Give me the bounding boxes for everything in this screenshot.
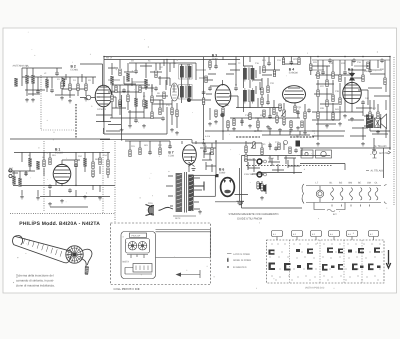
svg-text:ANT FM: ANT FM (379, 152, 388, 155)
svg-text:ECH 81: ECH 81 (98, 108, 107, 111)
svg-text:BM: BM (349, 182, 353, 185)
svg-text:BE: BE (358, 182, 362, 185)
svg-text:B 3: B 3 (312, 233, 315, 236)
svg-text:B 1: B 1 (273, 233, 276, 236)
svg-text:C.A.V.: C.A.V. (268, 157, 275, 160)
svg-text:OM: OM (367, 182, 371, 185)
svg-text:B 5: B 5 (348, 233, 351, 236)
svg-text:A 1 B: A 1 B (205, 135, 211, 138)
svg-text:zione di massima induttanza.: zione di massima induttanza. (16, 284, 55, 288)
svg-text:PICK UP: PICK UP (132, 234, 141, 237)
svg-text:AL TELAIO: AL TELAIO (371, 170, 384, 173)
svg-text:220V: 220V (148, 202, 153, 205)
svg-text:NOTA: NOTA (123, 261, 130, 264)
svg-text:ANT: ANT (9, 167, 14, 170)
svg-text:B 7: B 7 (370, 233, 373, 236)
svg-text:B 4: B 4 (330, 233, 333, 236)
svg-text:EABC80: EABC80 (289, 72, 299, 75)
svg-text:PHILIPS Modd. B4I20A - N4I: PHILIPS Modd. B4I20A - N4I2TA (19, 221, 100, 227)
svg-text:STAZ RD: STAZ RD (244, 173, 254, 176)
svg-text:EF89: EF89 (212, 58, 218, 61)
svg-text:Schema della inserzione del: Schema della inserzione del (16, 274, 54, 278)
svg-text:AL TELAIO: AL TELAIO (374, 145, 387, 148)
svg-text:LATO DI CORR: LATO DI CORR (233, 253, 250, 256)
svg-text:comando di sintonia, in posi-: comando di sintonia, in posi- (16, 279, 54, 283)
svg-text:RIV: RIV (296, 135, 300, 138)
svg-text:EZ80: EZ80 (168, 155, 174, 158)
svg-text:GUIDE UTILI FM/3M: GUIDE UTILI FM/3M (237, 217, 263, 220)
svg-text:RO 1F: RO 1F (106, 57, 113, 60)
svg-text:ECC85: ECC85 (55, 152, 63, 155)
svg-text:ECH81: ECH81 (71, 69, 79, 72)
svg-text:STAZIONI MAGNETE CON GIRAMENTO: STAZIONI MAGNETE CON GIRAMENTO (229, 213, 279, 216)
svg-text:VISTA A POS D I2: VISTA A POS D I2 (305, 287, 325, 290)
svg-text:IN GIRATED: IN GIRATED (233, 266, 247, 269)
svg-text:SPIRE DI CORR: SPIRE DI CORR (233, 259, 251, 262)
svg-text:B 2: B 2 (293, 233, 296, 236)
svg-text:BS: BS (339, 182, 343, 185)
svg-text:EM80: EM80 (219, 172, 226, 175)
svg-text:FM: FM (9, 170, 12, 173)
svg-text:RETE: RETE (175, 217, 181, 220)
svg-text:COLL PER PH I D/E: COLL PER PH I D/E (114, 287, 140, 291)
svg-text:B.T.: B.T. (333, 213, 337, 216)
